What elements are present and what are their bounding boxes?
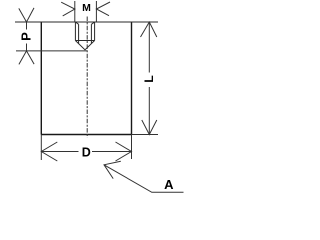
bottom edge right extension for L [132, 134, 159, 136]
svg-text:L: L [142, 75, 156, 82]
drill point cone [75, 41, 94, 50]
P bottom arrow [19, 51, 34, 65]
P dimension: bottom extension line [16, 50, 87, 52]
A leader arrowhead [104, 161, 121, 178]
M right arrow [96, 2, 110, 16]
D dimension: side extension lines below body [41, 135, 131, 161]
P dimension line [26, 22, 28, 51]
D dimension line [41, 151, 131, 153]
top face edge with extension lines (P left, L right) [15, 21, 158, 23]
A leader arrow [104, 165, 184, 193]
L top arrow [141, 22, 157, 37]
label P [20, 30, 32, 44]
centerline (dash-dot) [86, 17, 88, 138]
hole inner (drill) lines [79, 24, 92, 43]
svg-text:A: A [164, 177, 174, 192]
D right arrow [116, 142, 132, 161]
thread end line [75, 40, 94, 42]
D left arrow [41, 142, 57, 161]
P top arrow [19, 8, 34, 22]
svg-text:P: P [18, 32, 33, 41]
body outline (cylinder side view rectangle) [41, 22, 131, 135]
L dimension line [148, 22, 150, 135]
thread hole outer (major dia) lines [75, 22, 94, 50]
svg-text:M: M [82, 2, 91, 14]
M dimension extension lines [75, 1, 97, 22]
M left arrow [61, 2, 75, 16]
svg-text:D: D [82, 146, 91, 160]
L bottom arrow [142, 120, 157, 135]
entry chamfer [75, 22, 94, 24]
